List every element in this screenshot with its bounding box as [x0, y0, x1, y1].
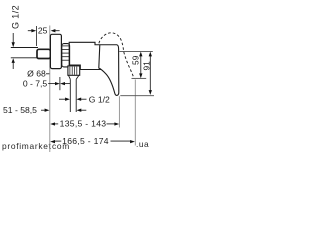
svg-text:59: 59	[130, 55, 140, 65]
svg-text:0 - 7,5: 0 - 7,5	[23, 78, 48, 88]
svg-text:G 1/2: G 1/2	[89, 95, 110, 105]
svg-text:166,5 - 174: 166,5 - 174	[62, 136, 109, 146]
svg-text:135,5 - 143: 135,5 - 143	[60, 119, 107, 129]
svg-text:25: 25	[38, 25, 48, 35]
svg-text:91: 91	[141, 61, 151, 71]
svg-text:profimarket: profimarket	[2, 141, 52, 151]
svg-text:Ø 68: Ø 68	[27, 69, 46, 79]
svg-text:51 - 58,5: 51 - 58,5	[3, 105, 37, 115]
svg-text:.ua: .ua	[136, 139, 149, 149]
svg-text:G 1/2: G 1/2	[10, 5, 20, 29]
